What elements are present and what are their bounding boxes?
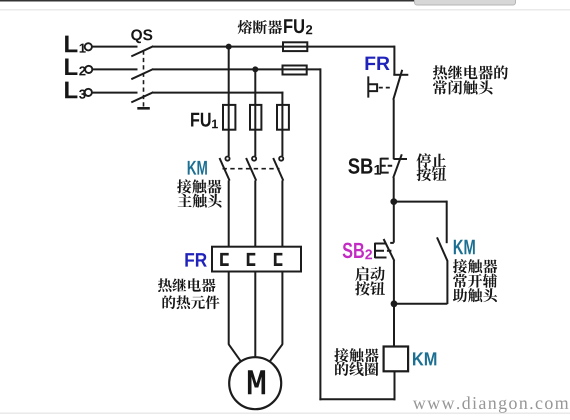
wire phase C below contact bbox=[281, 180, 283, 247]
KM main contact A fixed point bbox=[225, 157, 229, 161]
SB2 actuator E symbol bbox=[375, 243, 392, 258]
wire bottom rail bbox=[319, 398, 395, 400]
FR heater element B jog bbox=[248, 254, 255, 264]
KM main contact B fixed point bbox=[252, 157, 256, 161]
wire L1 terminal to QS bbox=[92, 46, 138, 48]
FR NC contact blade bbox=[393, 70, 402, 100]
contactor label KM (main) bbox=[188, 161, 207, 175]
node L1 junction bbox=[226, 44, 232, 50]
wire L1 QS to FR branch corner bbox=[153, 46, 395, 48]
QS linkage dashed line bbox=[143, 51, 145, 107]
label 主触头 bbox=[178, 194, 222, 208]
label 接触器 (coil) bbox=[334, 348, 378, 362]
wire SB1 to node 1 bbox=[393, 178, 395, 202]
node 2 junction bbox=[391, 300, 398, 307]
watermark www.diangon.com bbox=[413, 396, 569, 412]
terminal label L3 bbox=[65, 82, 77, 99]
relay label FR (heater) bbox=[185, 253, 206, 266]
wire phase B below contact bbox=[254, 180, 256, 247]
SB2 NO contact blade bbox=[384, 239, 395, 261]
label 接触器 (aux) bbox=[453, 259, 497, 273]
terminal circle L1 bbox=[85, 43, 92, 50]
QS blade pole L3 bbox=[131, 92, 153, 102]
label 按钮 (stop) bbox=[417, 167, 447, 181]
QS blade pole L2 bbox=[131, 69, 153, 79]
fuse FU1 phase C body bbox=[277, 105, 289, 130]
terminal label L1 bbox=[65, 36, 77, 53]
KM aux NO contact blade bbox=[437, 237, 448, 261]
wire L2 QS to control-left corner bbox=[153, 68, 320, 70]
terminal label L2 bbox=[65, 58, 77, 75]
wire phase C to motor bbox=[281, 271, 283, 345]
KM main contact C blade bbox=[273, 158, 283, 181]
wire phase B to motor bbox=[254, 271, 256, 358]
wire phase B drop bbox=[254, 69, 256, 156]
wire L2 terminal to QS bbox=[92, 68, 138, 70]
QS linkage bar bbox=[137, 107, 150, 110]
thermal relay FR heater box bbox=[212, 247, 301, 272]
fuse label FU2 bbox=[284, 19, 304, 33]
wire phase A below contact bbox=[228, 180, 230, 247]
SB1 actuator E symbol bbox=[381, 158, 393, 173]
wire L3 terminal to QS bbox=[92, 92, 138, 94]
label 助触头 bbox=[453, 288, 497, 302]
wire node1 to SB2 bbox=[393, 202, 395, 243]
wire control left rail bbox=[319, 68, 321, 400]
bottom separator line bbox=[0, 413, 570, 414]
button label SB1 bbox=[348, 158, 372, 174]
terminal circle L3 bbox=[85, 89, 92, 96]
FR heater element A jog bbox=[222, 254, 229, 264]
label 启动 bbox=[355, 267, 385, 281]
wire aux branch to node 2 bbox=[394, 303, 447, 305]
wire L3 QS to phase C corner bbox=[153, 92, 283, 94]
relay label FR (NC contact) bbox=[365, 57, 389, 70]
coil label KM bbox=[413, 352, 436, 365]
label 接触器 (main contacts) bbox=[177, 179, 221, 193]
FR heater element C jog bbox=[275, 254, 282, 264]
wire SB2 to node 2 bbox=[393, 261, 395, 304]
label 的热元件 bbox=[162, 295, 219, 309]
label 常闭触头 bbox=[433, 80, 493, 94]
label 停止 bbox=[416, 153, 446, 167]
node 1 junction bbox=[390, 198, 397, 205]
switch label QS bbox=[131, 29, 152, 43]
wire aux branch lower bbox=[446, 261, 448, 304]
wire phase A slant into motor bbox=[229, 344, 241, 361]
wire aux branch upper bbox=[446, 201, 448, 244]
node L2 junction bbox=[252, 66, 258, 72]
contactor coil KM box bbox=[384, 347, 409, 372]
label 热继电器的 bbox=[433, 65, 508, 79]
upper separator line bbox=[0, 9, 570, 10]
FR trip actuator hook bbox=[368, 76, 377, 97]
wire phase A drop bbox=[228, 47, 230, 157]
SB2 NO contact tick bbox=[390, 242, 394, 244]
fuse label FU1 bbox=[191, 113, 210, 127]
SB1 NC contact blade bbox=[393, 154, 402, 178]
fuse FU2 upper body bbox=[283, 42, 307, 51]
label 按钮 (start) bbox=[355, 281, 385, 295]
motor M circle bbox=[229, 357, 281, 409]
terminal circle L2 bbox=[85, 66, 92, 73]
label 热继电器 (heater) bbox=[158, 278, 216, 292]
wire node2 to coil bbox=[393, 304, 395, 347]
wire coil to bottom rail bbox=[394, 371, 396, 400]
QS blade pole L1 bbox=[131, 46, 153, 56]
contactor label KM (aux) bbox=[454, 240, 475, 254]
KM main contact A blade bbox=[220, 158, 230, 181]
wire phase C slant into motor bbox=[270, 344, 283, 361]
fuse group label 熔断器 bbox=[238, 20, 282, 34]
label 常开辅 bbox=[453, 274, 497, 288]
KM main contacts linkage dashed bbox=[223, 168, 280, 170]
KM main contact C fixed point bbox=[279, 157, 283, 161]
wire FR contact to SB1 bbox=[393, 99, 395, 159]
motor letter M bbox=[248, 370, 265, 394]
fuse FU2 lower body bbox=[283, 66, 307, 75]
wire node1 to aux branch bbox=[394, 201, 447, 203]
page top border line bbox=[0, 0, 414, 2]
FR NC contact tick bbox=[393, 74, 408, 76]
FR actuator dashed link bbox=[379, 87, 393, 89]
button label SB2 bbox=[343, 243, 364, 259]
label 的线圈 bbox=[335, 362, 378, 376]
top-right gray tab bbox=[415, 0, 516, 5]
wire L1 corner down to FR contact bbox=[393, 46, 395, 75]
wire phase A to motor bbox=[228, 271, 230, 345]
SB1 NC contact tick bbox=[394, 158, 408, 160]
KM main contact B blade bbox=[246, 158, 256, 181]
wire phase C drop bbox=[281, 92, 283, 157]
fuse FU1 phase B body bbox=[250, 105, 261, 130]
fuse FU1 phase A body bbox=[223, 105, 235, 130]
